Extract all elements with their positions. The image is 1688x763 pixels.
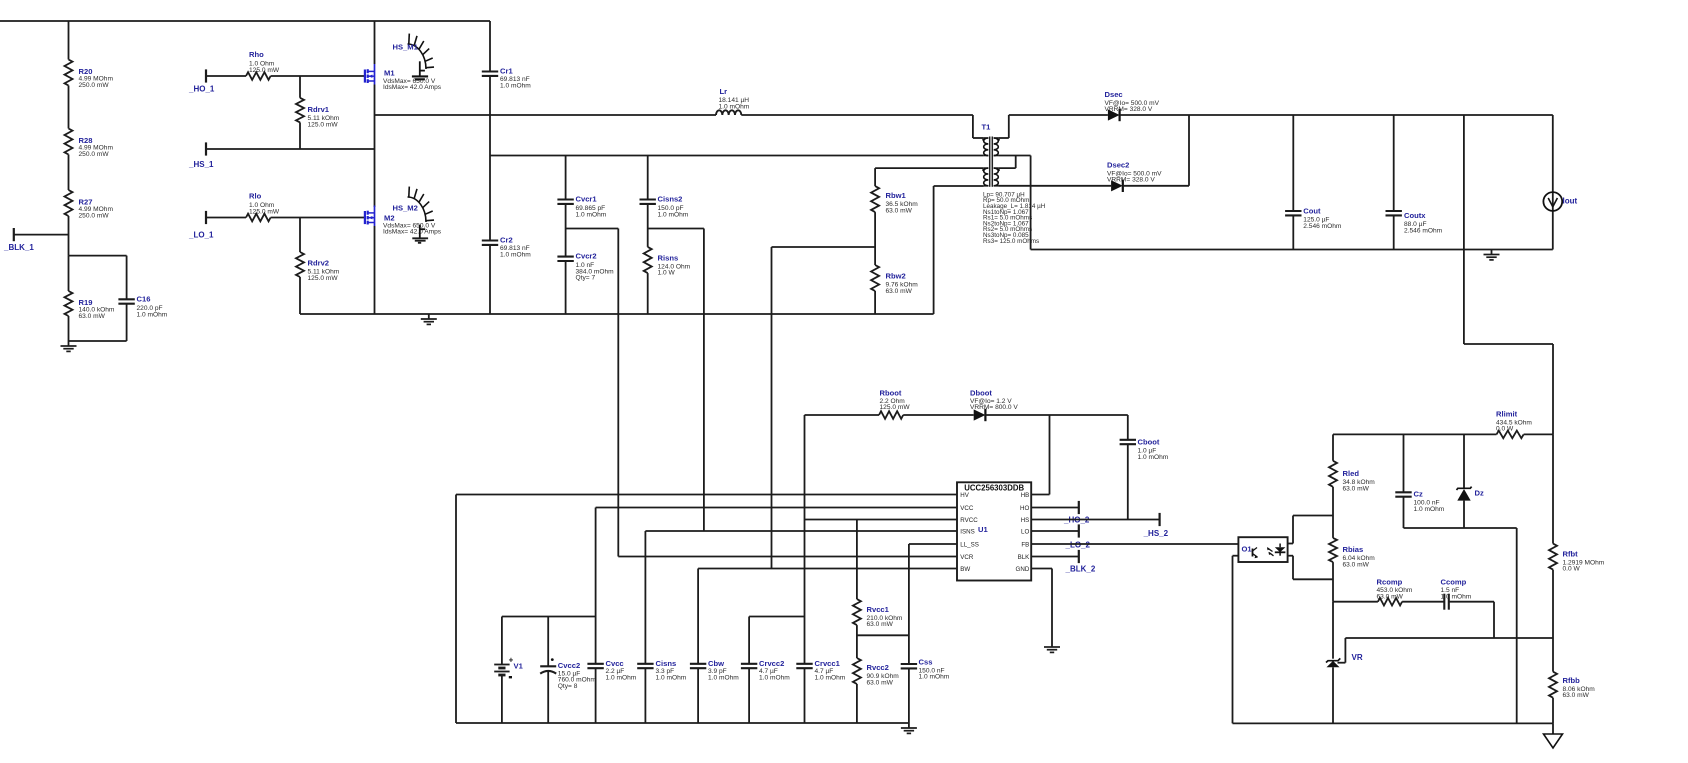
wire Rbw2 bottom bbox=[874, 291, 876, 314]
node VCR tap bbox=[566, 228, 619, 230]
svg-text:_HO_1: _HO_1 bbox=[188, 85, 215, 94]
svg-text:_HS_1: _HS_1 bbox=[188, 160, 214, 169]
T1 secondary winding Ns2 bbox=[994, 168, 1000, 186]
capacitor Crvcc1 bbox=[796, 520, 845, 724]
wire Cr2 bottom bbox=[489, 245, 491, 314]
op-amp U1 UCC256303DDB bbox=[957, 482, 1031, 580]
diode Dboot bbox=[970, 389, 1018, 422]
current source Iout bbox=[1543, 115, 1577, 250]
svg-text:Cr1: Cr1 bbox=[500, 67, 513, 76]
svg-text:1.0 mOhm: 1.0 mOhm bbox=[815, 674, 846, 681]
svg-text:HS: HS bbox=[1021, 517, 1030, 524]
wire HS_1 line bbox=[206, 148, 375, 150]
resistor Rbias bbox=[1329, 516, 1375, 569]
wire opto LED cathode bbox=[1288, 556, 1293, 580]
svg-text:Dz: Dz bbox=[1475, 489, 1484, 498]
wire GND pin bbox=[1031, 569, 1052, 643]
svg-text:Rlo: Rlo bbox=[249, 192, 262, 201]
svg-text:Cisns: Cisns bbox=[656, 659, 677, 668]
svg-text:IdsMax= 42.0 Amps: IdsMax= 42.0 Amps bbox=[383, 84, 442, 91]
svg-text:Cboot: Cboot bbox=[1138, 438, 1160, 447]
wire Ns1 top lead bbox=[998, 115, 1108, 138]
wire Rdrv1 top stub bbox=[299, 76, 301, 98]
svg-text:VCR: VCR bbox=[960, 554, 974, 561]
svg-text:1.0 mOhm: 1.0 mOhm bbox=[719, 103, 750, 110]
svg-text:Cr2: Cr2 bbox=[500, 236, 513, 245]
resistor Rled bbox=[1329, 434, 1375, 492]
svg-text:Cvcc2: Cvcc2 bbox=[558, 661, 580, 670]
heatsink HS_M1 bbox=[393, 34, 435, 80]
svg-text:IdsMax= 42.0 Amps: IdsMax= 42.0 Amps bbox=[383, 229, 442, 236]
capacitor Coutx bbox=[1386, 115, 1443, 250]
T1 bias winding Ns3 bbox=[982, 168, 988, 186]
svg-text:125.0 mW: 125.0 mW bbox=[308, 121, 339, 128]
svg-text:Cvcr1: Cvcr1 bbox=[576, 195, 598, 204]
capacitor Cvcc2 bbox=[540, 617, 596, 724]
wire bias return bbox=[934, 186, 984, 314]
wire Rlo to M2 gate bbox=[271, 217, 365, 219]
svg-text:Rbias: Rbias bbox=[1343, 545, 1364, 554]
wire BW line bbox=[698, 568, 957, 570]
wire Rfbt to FB node bbox=[1552, 570, 1554, 672]
wire Rdrv2 bottom stub bbox=[299, 277, 301, 314]
wire LL_SS line bbox=[909, 543, 957, 545]
svg-text:1.0 mOhm: 1.0 mOhm bbox=[658, 211, 689, 218]
capacitor Crvcc2 bbox=[741, 617, 805, 724]
svg-text:1.0 mOhm: 1.0 mOhm bbox=[500, 251, 531, 258]
resistor Rcomp bbox=[1333, 577, 1413, 605]
svg-text:C16: C16 bbox=[137, 295, 151, 304]
wire R27-BLK node bbox=[68, 216, 70, 256]
wire Cisns2 bottom bbox=[647, 204, 649, 228]
svg-text:1.0 mOhm: 1.0 mOhm bbox=[708, 674, 739, 681]
svg-text:VR: VR bbox=[1352, 653, 1363, 662]
svg-text:VRRM= 328.0 V: VRRM= 328.0 V bbox=[1105, 106, 1153, 113]
svg-text:Css: Css bbox=[919, 658, 933, 667]
wire LO to Rlo bbox=[206, 217, 246, 219]
capacitor Ccomp bbox=[1402, 577, 1494, 609]
wire M1 drain bbox=[374, 21, 376, 64]
svg-text:_LO_1: _LO_1 bbox=[188, 231, 214, 240]
ground U1 GND bbox=[1044, 642, 1060, 652]
svg-text:Dsec2: Dsec2 bbox=[1107, 161, 1129, 170]
svg-text:Ccomp: Ccomp bbox=[1441, 577, 1467, 586]
wire comp top line bbox=[1333, 433, 1497, 435]
svg-text:1.0 W: 1.0 W bbox=[658, 270, 676, 277]
svg-text:BW: BW bbox=[960, 566, 970, 573]
svg-text:63.0 mW: 63.0 mW bbox=[886, 207, 913, 214]
svg-text:_LO_2: _LO_2 bbox=[1065, 541, 1091, 550]
wire Vout sense drop bbox=[1464, 115, 1553, 434]
wire M1 source / switch node column bbox=[374, 85, 376, 208]
wire Rdrv2 top stub bbox=[299, 218, 301, 253]
wire opto LED anode bbox=[1288, 516, 1293, 544]
capacitor Cvcr2 bbox=[557, 252, 614, 282]
wire VCC column bbox=[595, 508, 597, 664]
svg-text:125.0 mW: 125.0 mW bbox=[880, 404, 911, 411]
svg-text:Dboot: Dboot bbox=[970, 389, 992, 398]
svg-text:Rvcc2: Rvcc2 bbox=[867, 663, 889, 672]
wire Cvcr1 top stub bbox=[565, 156, 567, 200]
svg-text:Rled: Rled bbox=[1343, 469, 1360, 478]
ground VCC rail bbox=[901, 723, 917, 733]
wire Rbw1 top bbox=[874, 168, 876, 186]
diode Dsec bbox=[1105, 90, 1160, 121]
wire bias top lead bbox=[875, 167, 984, 169]
svg-text:125.0 mW: 125.0 mW bbox=[249, 67, 280, 74]
svg-text:63.0 mW: 63.0 mW bbox=[886, 288, 913, 295]
node _LO_2 bbox=[1031, 524, 1090, 549]
resistor R27 bbox=[65, 190, 114, 219]
svg-text:1.0 mOhm: 1.0 mOhm bbox=[1414, 506, 1445, 513]
wire Rfbb bottom bbox=[1552, 698, 1554, 724]
wire R20-R28 bbox=[68, 86, 70, 129]
capacitor Cisns2 bbox=[640, 195, 689, 219]
resistor Rho bbox=[246, 50, 280, 80]
svg-text:Rvcc1: Rvcc1 bbox=[867, 605, 890, 614]
resistor R20 bbox=[65, 60, 114, 89]
svg-text:63.0 mW: 63.0 mW bbox=[1377, 593, 1404, 600]
node _BLK_1 bbox=[3, 228, 69, 252]
svg-text:FB: FB bbox=[1021, 541, 1029, 548]
svg-text:Cisns2: Cisns2 bbox=[658, 195, 683, 204]
resistor Rvcc1 bbox=[853, 520, 903, 629]
wire HO to Rho bbox=[206, 75, 246, 77]
capacitor Cvcr1 bbox=[557, 195, 606, 219]
svg-text:1.0 mOhm: 1.0 mOhm bbox=[137, 311, 168, 318]
svg-text:_HS_2: _HS_2 bbox=[1143, 529, 1169, 538]
wire Cz Dz bottom bbox=[1404, 528, 1517, 723]
svg-text:HV: HV bbox=[960, 492, 969, 499]
svg-text:Qty= 7: Qty= 7 bbox=[576, 275, 596, 282]
capacitor Cisns bbox=[637, 531, 687, 723]
svg-text:VCC: VCC bbox=[960, 505, 974, 512]
svg-text:GND: GND bbox=[1016, 566, 1030, 573]
wire Dsec2 cathode up bbox=[1123, 115, 1189, 186]
svg-text:Iout: Iout bbox=[1563, 197, 1578, 206]
resistor Rbw2 bbox=[871, 265, 918, 295]
svg-text:63.0 mW: 63.0 mW bbox=[1343, 485, 1370, 492]
wire top rail bbox=[0, 20, 490, 22]
inductor Lr bbox=[716, 87, 750, 115]
wire Cr column top bbox=[489, 21, 491, 72]
wire Rboot-Dboot bbox=[903, 414, 974, 416]
svg-text:Cz: Cz bbox=[1414, 490, 1423, 499]
svg-text:125.0 mW: 125.0 mW bbox=[249, 208, 280, 215]
svg-text:HS_M2: HS_M2 bbox=[393, 204, 418, 213]
wire Rled bottom / node A bbox=[1293, 487, 1333, 516]
battery V1 bbox=[494, 617, 523, 724]
resistor Rdrv1 bbox=[296, 98, 340, 129]
diode Dz bbox=[1457, 434, 1484, 528]
resistor R19 bbox=[65, 291, 115, 320]
capacitor Cr2 bbox=[482, 236, 531, 259]
wire R19 box top bbox=[69, 255, 127, 257]
wire R20 column top bbox=[68, 21, 70, 60]
svg-text:Rdrv2: Rdrv2 bbox=[308, 259, 330, 268]
svg-text:M2: M2 bbox=[384, 214, 395, 223]
svg-text:1.0 mOhm: 1.0 mOhm bbox=[1138, 454, 1169, 461]
wire Cr1-Cr2 bbox=[489, 76, 491, 241]
transistor M1 bbox=[365, 64, 442, 91]
svg-text:Coutx: Coutx bbox=[1404, 211, 1426, 220]
svg-text:HO: HO bbox=[1020, 505, 1029, 512]
wire HV line bbox=[456, 495, 957, 724]
svg-text:Rdrv1: Rdrv1 bbox=[308, 105, 330, 114]
wire R19 bottom bbox=[68, 316, 70, 341]
T1 primary winding bbox=[982, 138, 988, 156]
capacitor Cvcc bbox=[587, 659, 636, 723]
svg-text:O1: O1 bbox=[1242, 545, 1253, 554]
svg-text:VRRM= 328.0 V: VRRM= 328.0 V bbox=[1107, 177, 1155, 184]
svg-text:LO: LO bbox=[1021, 528, 1029, 535]
node _HS_2 bbox=[1031, 513, 1168, 538]
svg-text:Rlimit: Rlimit bbox=[1496, 410, 1518, 419]
svg-text:ISNS: ISNS bbox=[960, 528, 974, 535]
wire primary return line bbox=[490, 155, 984, 157]
svg-text:1.0 mOhm: 1.0 mOhm bbox=[656, 674, 687, 681]
wire ISNS line bbox=[645, 530, 957, 532]
wire R19 box bottom bbox=[69, 340, 127, 342]
wire RVCC line bbox=[805, 519, 958, 521]
wire Dboot-Cboot bbox=[985, 414, 1127, 416]
node _HO_1 bbox=[188, 69, 215, 93]
wire R28-R27 bbox=[68, 155, 70, 191]
node _BLK_2 bbox=[1031, 550, 1096, 574]
svg-text:63.0 mW: 63.0 mW bbox=[1563, 692, 1590, 699]
resistor R28 bbox=[65, 129, 114, 158]
capacitor Cboot bbox=[1120, 415, 1169, 520]
wire M2 source bbox=[374, 226, 376, 314]
capacitor Cbw bbox=[690, 569, 739, 724]
wire Rlimit right bbox=[1524, 433, 1553, 435]
svg-text:1.0 mOhm: 1.0 mOhm bbox=[759, 674, 790, 681]
capacitor Cr1 bbox=[482, 67, 531, 90]
svg-text:2.546 mOhm: 2.546 mOhm bbox=[1404, 227, 1443, 234]
wire BW drop bbox=[771, 247, 773, 569]
svg-text:1.0 mOhm: 1.0 mOhm bbox=[1441, 593, 1472, 600]
svg-text:1.0 mOhm: 1.0 mOhm bbox=[576, 211, 607, 218]
svg-text:RVCC: RVCC bbox=[960, 517, 978, 524]
svg-text:V1: V1 bbox=[514, 662, 524, 671]
svg-text:250.0 mW: 250.0 mW bbox=[79, 151, 110, 158]
svg-text:Rbw1: Rbw1 bbox=[886, 191, 907, 200]
svg-text:U1: U1 bbox=[978, 525, 988, 534]
svg-text:250.0 mW: 250.0 mW bbox=[79, 212, 110, 219]
wire Rvcc2 bottom bbox=[856, 684, 858, 723]
wire secondary bottom rail bbox=[1233, 722, 1554, 724]
wire boot left bbox=[805, 415, 880, 520]
resistor Rbw1 bbox=[871, 186, 918, 214]
optocoupler O1 bbox=[1238, 537, 1287, 562]
wire Risns bottom bbox=[647, 273, 649, 314]
svg-text:250.0 mW: 250.0 mW bbox=[79, 82, 110, 89]
wire Rbias bottom / node B bbox=[1293, 562, 1333, 602]
wire HB drop bbox=[1049, 415, 1051, 495]
resistor Rvcc2 bbox=[853, 658, 899, 686]
resistor Rlimit bbox=[1496, 410, 1532, 439]
wire VCR drop bbox=[617, 229, 619, 557]
svg-text:63.0 mW: 63.0 mW bbox=[1343, 561, 1370, 568]
wire Rbw1-Rbw2 bbox=[874, 212, 876, 265]
ground below HS_M2 bbox=[412, 238, 428, 243]
svg-text:Cout: Cout bbox=[1303, 207, 1321, 216]
svg-text:125.0 mW: 125.0 mW bbox=[308, 275, 339, 282]
node BW tap bbox=[772, 246, 876, 248]
svg-text:Qty= 8: Qty= 8 bbox=[558, 683, 578, 690]
svg-text:Crvcc1: Crvcc1 bbox=[815, 659, 841, 668]
svg-text:UCC256303DDB: UCC256303DDB bbox=[964, 484, 1024, 493]
svg-text:T1: T1 bbox=[982, 123, 992, 132]
wire ISNS drop bbox=[703, 229, 705, 532]
node _HO_2 bbox=[1031, 501, 1090, 525]
wire R19 top bbox=[68, 256, 70, 291]
transistor M2 bbox=[365, 206, 442, 236]
shunt regulator VR bbox=[1326, 602, 1363, 724]
resistor Rfbt bbox=[1549, 434, 1605, 572]
svg-text:Cbw: Cbw bbox=[708, 659, 724, 668]
wire VCC top link bbox=[502, 616, 596, 618]
wire Ns1 bottom / center tap bbox=[998, 156, 1030, 169]
svg-text:VRRM= 800.0 V: VRRM= 800.0 V bbox=[970, 404, 1018, 411]
wire Lr to transformer bbox=[741, 115, 984, 138]
wire primary ground rail bbox=[300, 313, 934, 315]
wire Ns2 bottom lead bbox=[998, 185, 1111, 187]
transformer T1 core bbox=[982, 123, 993, 187]
node _LO_1 bbox=[188, 211, 214, 240]
node ISNS tap bbox=[648, 228, 704, 230]
svg-text:M1: M1 bbox=[384, 69, 395, 78]
capacitor Css bbox=[901, 544, 950, 723]
svg-text:LL_SS: LL_SS bbox=[960, 541, 979, 548]
svg-text:_BLK_2: _BLK_2 bbox=[1065, 565, 1096, 574]
node _HS_1 bbox=[188, 142, 214, 169]
svg-text:Rbw2: Rbw2 bbox=[886, 272, 906, 281]
svg-text:1.0 mOhm: 1.0 mOhm bbox=[500, 82, 531, 89]
ground below R19 bbox=[61, 341, 77, 351]
wire Risns top bbox=[647, 228, 649, 247]
capacitor Cout bbox=[1285, 115, 1342, 250]
ground triangle bbox=[1544, 723, 1563, 748]
wire Cvcr mid bbox=[565, 204, 567, 257]
svg-text:_BLK_1: _BLK_1 bbox=[3, 243, 34, 252]
svg-text:HB: HB bbox=[1021, 492, 1030, 499]
svg-text:Rfbt: Rfbt bbox=[1563, 550, 1579, 559]
resistor Rfbb bbox=[1549, 672, 1595, 699]
svg-text:Crvcc2: Crvcc2 bbox=[759, 659, 784, 668]
wire VCC line bbox=[596, 507, 957, 509]
svg-text:63.0 mW: 63.0 mW bbox=[79, 313, 106, 320]
svg-text:0.0 W: 0.0 W bbox=[1496, 426, 1514, 433]
heatsink HS_M2 bbox=[393, 187, 435, 238]
wire Rdrv1 bottom stub bbox=[299, 122, 301, 149]
svg-text:1.0 mOhm: 1.0 mOhm bbox=[606, 674, 637, 681]
svg-text:Cvcc: Cvcc bbox=[606, 659, 624, 668]
wire HB pin bbox=[1031, 494, 1049, 496]
T1 secondary winding Ns1 bbox=[994, 138, 1000, 156]
svg-text:Dsec: Dsec bbox=[1105, 90, 1123, 99]
wire Rho to M1 gate bbox=[271, 75, 365, 77]
T1 parameter labels bbox=[983, 191, 1046, 244]
resistor Rdrv2 bbox=[296, 252, 340, 282]
resistor Rboot bbox=[879, 389, 910, 419]
wire center tap drop bbox=[1031, 156, 1553, 250]
wire Cvcr2 bottom bbox=[565, 261, 567, 314]
ground on rail bbox=[421, 314, 437, 324]
diode Dsec2 bbox=[1107, 161, 1162, 193]
wire Rvcc mid node bbox=[857, 625, 909, 658]
svg-text:Risns: Risns bbox=[658, 254, 679, 263]
svg-text:Rcomp: Rcomp bbox=[1377, 577, 1403, 586]
ground on output rail bbox=[1484, 250, 1500, 260]
svg-text:Rfbb: Rfbb bbox=[1563, 676, 1581, 685]
wire FB node line bbox=[1345, 637, 1553, 639]
wire Ccomp to FB node bbox=[1493, 602, 1495, 638]
resistor Risns bbox=[644, 247, 691, 277]
svg-text:Cvcr2: Cvcr2 bbox=[576, 252, 597, 261]
svg-text:63.0 mW: 63.0 mW bbox=[867, 679, 894, 686]
svg-text:2.546 mOhm: 2.546 mOhm bbox=[1303, 223, 1342, 230]
svg-text:Lr: Lr bbox=[720, 87, 728, 96]
wire Cisns2 top stub bbox=[647, 156, 649, 200]
wire FB pin to opto bbox=[1031, 543, 1238, 545]
wire VCR line bbox=[618, 556, 957, 558]
svg-text:63.0 mW: 63.0 mW bbox=[867, 621, 894, 628]
capacitor C16 bbox=[118, 256, 167, 341]
svg-text:Rboot: Rboot bbox=[880, 389, 902, 398]
wire VCC bottom rail bbox=[456, 722, 909, 724]
wire opto emitter bbox=[1233, 556, 1239, 724]
svg-text:0.0 W: 0.0 W bbox=[1563, 566, 1581, 573]
svg-text:Rho: Rho bbox=[249, 50, 264, 59]
svg-text:BLK: BLK bbox=[1018, 554, 1031, 561]
svg-text:HS_M1: HS_M1 bbox=[393, 43, 419, 52]
resistor Rlo bbox=[246, 192, 280, 222]
wire Dsec to out+ bbox=[1120, 114, 1553, 116]
wire switch node to Lr bbox=[375, 114, 717, 116]
capacitor Cz bbox=[1395, 434, 1444, 528]
svg-text:1.0 mOhm: 1.0 mOhm bbox=[919, 674, 950, 681]
